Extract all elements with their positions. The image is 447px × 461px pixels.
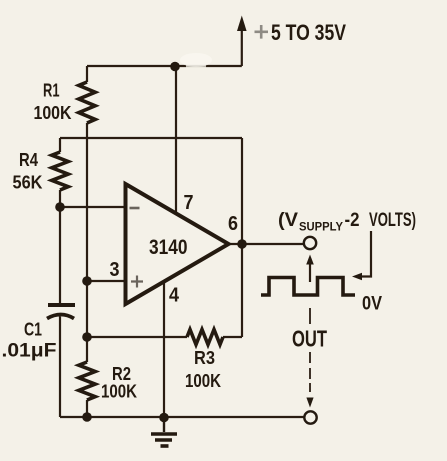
svg-text:C1: C1 <box>24 320 42 340</box>
svg-text:3140: 3140 <box>149 236 188 259</box>
svg-text:(V: (V <box>278 209 298 231</box>
svg-text:100K: 100K <box>185 371 221 391</box>
svg-text:7: 7 <box>184 191 194 214</box>
svg-text:6: 6 <box>228 212 238 235</box>
svg-text:100K: 100K <box>34 103 72 123</box>
svg-text:R4: R4 <box>19 150 38 170</box>
svg-text:100K: 100K <box>101 382 137 402</box>
svg-text:56K: 56K <box>13 173 43 193</box>
svg-text:0V: 0V <box>362 293 382 315</box>
svg-text:SUPPLY: SUPPLY <box>299 220 343 234</box>
svg-text:.01μF: .01μF <box>2 341 57 362</box>
svg-text:R3: R3 <box>194 348 215 368</box>
svg-text:VOLTS): VOLTS) <box>369 209 416 231</box>
svg-text:3: 3 <box>110 258 120 281</box>
svg-text:5 TO 35V: 5 TO 35V <box>271 20 346 45</box>
svg-text:4: 4 <box>169 284 180 307</box>
svg-text:OUT: OUT <box>292 326 327 352</box>
svg-text:-2: -2 <box>345 209 360 231</box>
svg-text:R1: R1 <box>43 81 60 101</box>
